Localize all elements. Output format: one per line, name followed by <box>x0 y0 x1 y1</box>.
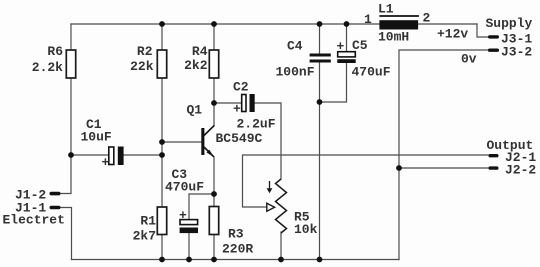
svg-text:J3-2: J3-2 <box>501 45 532 60</box>
resistor R1 <box>133 207 167 244</box>
wire C2 right to pot top <box>255 103 281 179</box>
svg-text:2: 2 <box>423 11 431 26</box>
junction R5 bottom <box>278 257 284 263</box>
svg-text:R4: R4 <box>192 44 208 59</box>
svg-text:2.2k: 2.2k <box>32 60 63 75</box>
terminal J3-2 <box>461 45 532 67</box>
terminal J1-1 <box>3 200 65 227</box>
svg-text:R3: R3 <box>228 227 244 242</box>
junction C5 top <box>344 21 350 27</box>
svg-text:C5: C5 <box>352 38 368 53</box>
inductor L1 <box>364 2 431 45</box>
svg-text:R6: R6 <box>47 44 63 59</box>
wire supply drop to J3-1 <box>477 24 488 37</box>
capacitor C4 <box>276 39 331 80</box>
wire base of Q1 <box>162 141 201 143</box>
svg-text:L1: L1 <box>378 2 394 17</box>
svg-text:2k7: 2k7 <box>133 229 156 244</box>
capacitor C2 <box>233 80 276 132</box>
svg-text:C4: C4 <box>287 39 303 54</box>
svg-text:1: 1 <box>364 12 372 27</box>
junction 0v J2-2 <box>396 165 402 171</box>
resistor R3 <box>209 207 253 257</box>
terminal J2-1 <box>487 138 537 165</box>
junction R1 bottom <box>159 257 165 263</box>
junction R3 bottom <box>211 257 217 263</box>
junction collector C2 tap <box>211 100 217 106</box>
svg-text:+: + <box>179 208 187 223</box>
svg-text:+12v: +12v <box>437 27 468 42</box>
wire R2 bottom to R1 top <box>161 78 163 207</box>
svg-text:22k: 22k <box>130 59 154 74</box>
svg-text:10k: 10k <box>294 222 318 237</box>
svg-text:Q1: Q1 <box>187 103 203 118</box>
svg-text:+: + <box>337 39 345 54</box>
svg-text:470uF: 470uF <box>352 65 391 80</box>
wire R1 bottom lead <box>161 235 163 260</box>
svg-text:Supply: Supply <box>486 16 533 31</box>
junction C5 to C4 column <box>317 99 323 105</box>
resistor R4 <box>184 44 219 78</box>
junction R2 top <box>159 21 165 27</box>
svg-text:10mH: 10mH <box>378 30 409 45</box>
svg-text:BC549C: BC549C <box>216 131 263 146</box>
wire C3 bottom lead <box>188 233 190 260</box>
wire C4 top lead <box>319 24 321 54</box>
wire R4 bottom to collector <box>213 78 215 125</box>
wire C1 node down to J1-2 <box>60 155 71 194</box>
wire output J2-2 <box>399 167 489 169</box>
svg-text:220R: 220R <box>222 242 253 257</box>
svg-text:R2: R2 <box>137 44 153 59</box>
capacitor C3 <box>165 167 204 233</box>
wire J1-1 to bottom rail <box>60 208 72 260</box>
wire C5 bottom to C4 column <box>320 63 347 102</box>
svg-text:100nF: 100nF <box>276 65 315 80</box>
wire top rail left <box>71 23 379 25</box>
junction base node <box>159 139 165 145</box>
wire 0v from J3-2 <box>399 50 489 168</box>
svg-text:J2-2: J2-2 <box>505 162 536 177</box>
potentiometer R5 <box>267 179 318 237</box>
wire R3 bottom lead <box>213 235 215 260</box>
wire C3 tap to emitter <box>189 193 214 195</box>
wire R4 top lead <box>213 24 215 50</box>
svg-text:Electret: Electret <box>3 213 65 228</box>
wire C4 bottom lead <box>319 62 321 259</box>
wire C2 left <box>214 102 242 104</box>
svg-text:2.2uF: 2.2uF <box>237 117 276 132</box>
wire top rail right of L1 <box>418 23 477 25</box>
junction C3 bottom <box>186 257 192 263</box>
capacitor C1 <box>81 117 124 170</box>
transistor Q1 <box>187 103 263 157</box>
wire R6 top lead <box>70 24 72 50</box>
svg-text:10uF: 10uF <box>81 130 112 145</box>
wire C3 top lead <box>188 194 190 220</box>
wire 0v column <box>398 168 400 260</box>
junction C4 bottom <box>317 257 323 263</box>
capacitor C5 <box>337 38 391 80</box>
svg-text:470uF: 470uF <box>165 180 204 195</box>
terminal J2-2 <box>489 162 537 177</box>
wire R2 top lead <box>161 24 163 50</box>
wire bottom rail <box>72 259 400 261</box>
wire R5 bottom lead <box>280 232 282 260</box>
junction C1 left <box>68 152 74 158</box>
terminal J3-1 <box>437 16 533 46</box>
resistor R6 <box>32 44 76 78</box>
junction R4 top <box>211 21 217 27</box>
resistor R2 <box>130 44 167 78</box>
junction emitter C3 tap <box>211 191 217 197</box>
wire R6 bottom to C1 node <box>70 78 72 155</box>
svg-text:R1: R1 <box>140 214 156 229</box>
wire C5 top lead <box>346 24 348 52</box>
svg-text:+: + <box>102 155 110 170</box>
svg-text:+: + <box>233 102 241 117</box>
terminal J1-2 <box>15 188 61 203</box>
wire output J2-1 to wiper <box>243 155 490 207</box>
wire emitter column <box>213 157 215 207</box>
wire C1 left <box>71 154 109 156</box>
junction C4 top <box>317 21 323 27</box>
svg-text:Output: Output <box>487 138 534 153</box>
junction C1 right <box>159 152 165 158</box>
wire C1 right <box>124 154 162 156</box>
svg-text:C2: C2 <box>233 80 249 95</box>
svg-text:0v: 0v <box>461 52 477 67</box>
svg-text:2k2: 2k2 <box>184 58 208 73</box>
